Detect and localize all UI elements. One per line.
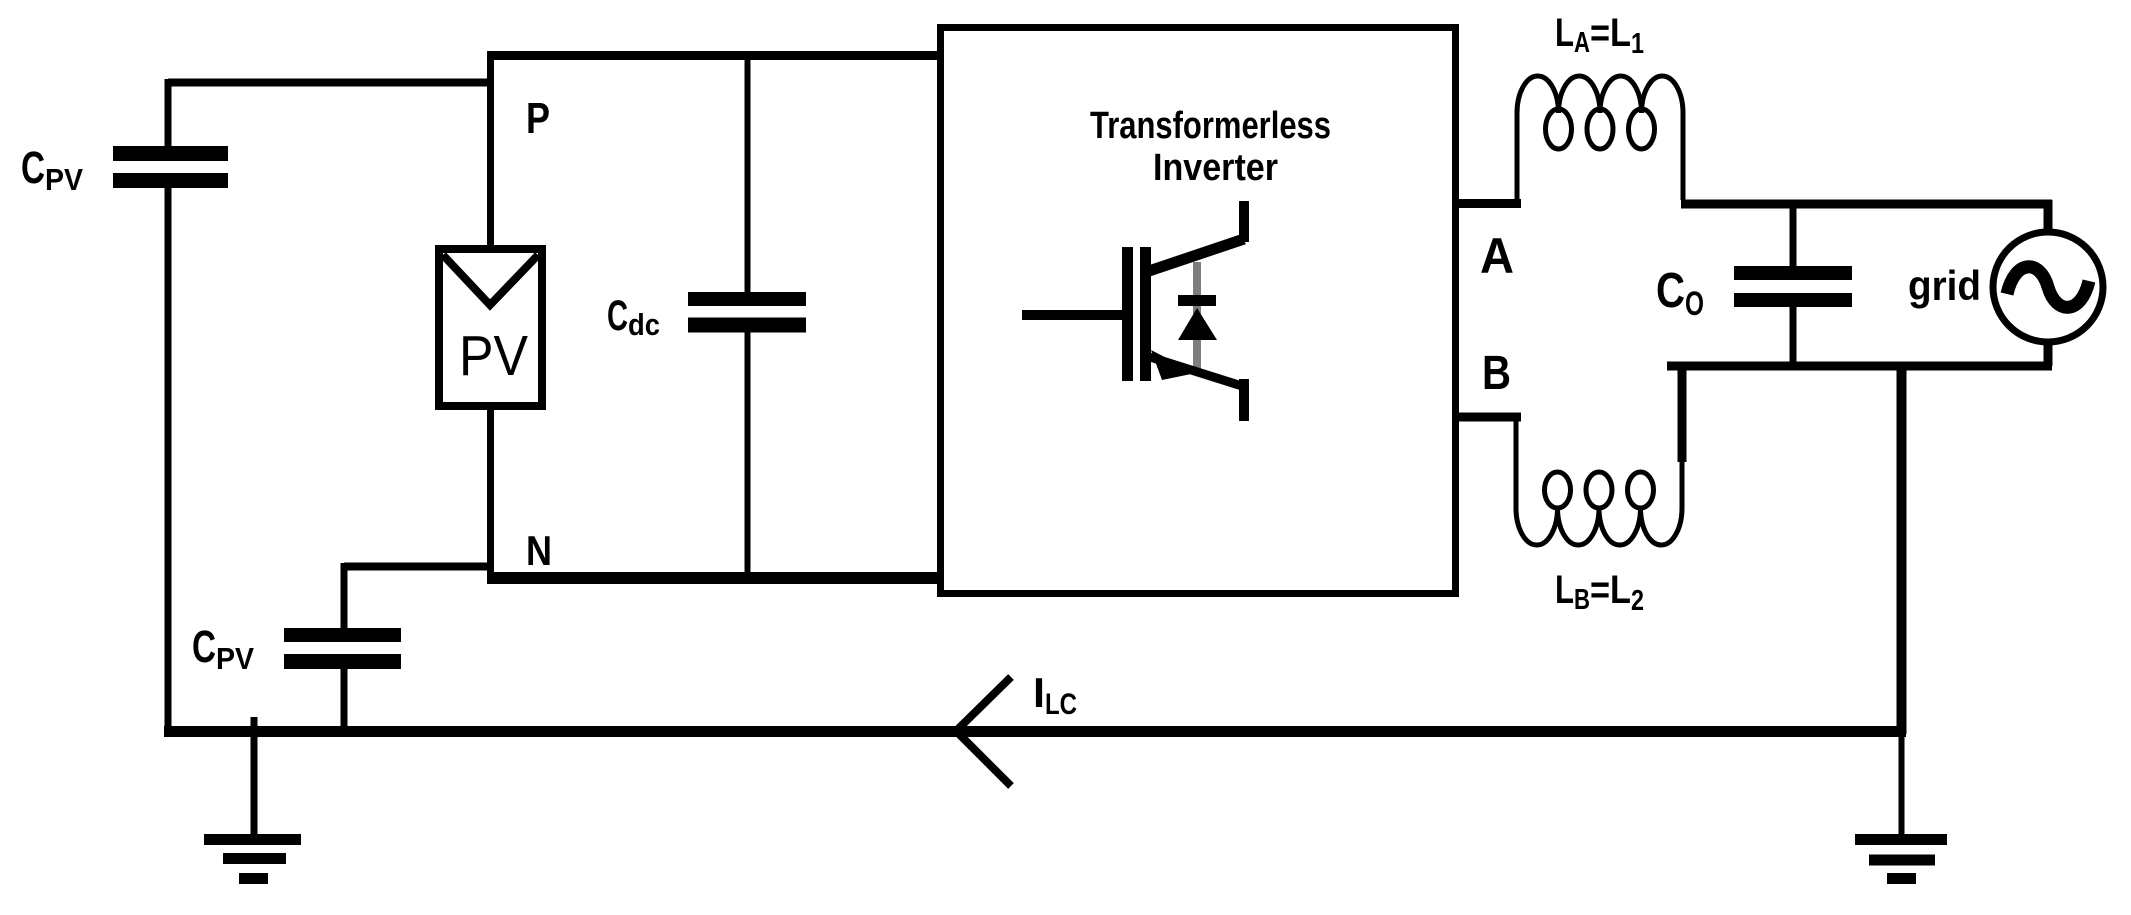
- diode triangle: [1178, 308, 1217, 340]
- PV panel: [439, 249, 542, 406]
- ground (left): [204, 840, 301, 879]
- ground (right): [1855, 840, 1947, 879]
- svg-text:A: A: [1480, 228, 1514, 284]
- capacitor CPV (bottom): [284, 563, 401, 731]
- arrow ILC leakage current: [956, 677, 1011, 786]
- collector diagonal: [1149, 239, 1244, 271]
- IGBT Q1: [1022, 201, 1244, 421]
- capacitor Cdc: [688, 56, 806, 578]
- wire N column vertical below PV: [487, 406, 494, 578]
- wire output B stub: [1455, 413, 1521, 422]
- emitter arrow: [1151, 350, 1196, 380]
- svg-text:N: N: [526, 527, 552, 574]
- wire right return vertical: [1897, 366, 1907, 734]
- svg-text:LB=L2: LB=L2: [1555, 568, 1644, 617]
- diode stem: [1193, 262, 1201, 372]
- wire left vertical below CPV down to bottom rail: [165, 188, 172, 731]
- wire LB right leg to output rail: [1678, 362, 1687, 462]
- wire ground stem left: [251, 717, 258, 839]
- wire ground stem right: [1899, 734, 1905, 839]
- wire bottom main horizontal rail: [164, 726, 1906, 737]
- wire bottom output rail: [1667, 362, 2052, 371]
- svg-text:LA=L1: LA=L1: [1555, 11, 1644, 60]
- gate lead: [1022, 310, 1122, 320]
- collector lead: [1239, 201, 1249, 242]
- ac source (grid): [1993, 200, 2103, 366]
- svg-text:PV: PV: [459, 324, 528, 388]
- wire bottom dc rail: [487, 572, 941, 584]
- diode cathode bar: [1178, 295, 1216, 306]
- capacitor CO: [1734, 206, 1852, 366]
- wire top-left horizontal from CPV to node P column: [168, 79, 492, 87]
- wire N stub from lower CPV to N column: [344, 563, 492, 571]
- wire P column vertical above PV: [487, 52, 494, 246]
- emitter diagonal: [1150, 357, 1242, 386]
- svg-text:P: P: [526, 94, 550, 143]
- wire grid top lead: [2044, 200, 2053, 233]
- svg-text:Inverter: Inverter: [1153, 147, 1278, 189]
- inverter block U1: [941, 28, 1456, 594]
- emitter lead: [1239, 379, 1249, 421]
- wire grid bottom lead: [2044, 341, 2053, 366]
- svg-text:Transformerless: Transformerless: [1090, 105, 1331, 147]
- gate bar: [1122, 247, 1133, 381]
- wire output A stub: [1455, 199, 1521, 208]
- inductor LA: [1517, 76, 1683, 204]
- wire top dc rail: [487, 51, 941, 60]
- wire top output rail to grid: [1681, 200, 2052, 209]
- channel bar: [1140, 247, 1151, 381]
- svg-text:B: B: [1482, 347, 1511, 400]
- inductor LB: [1516, 417, 1682, 545]
- svg-text:grid: grid: [1908, 262, 1981, 309]
- capacitor CPV (top): [113, 79, 228, 181]
